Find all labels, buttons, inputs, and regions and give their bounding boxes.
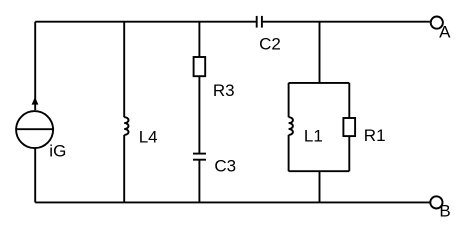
- wire parallel block top: [289, 82, 350, 84]
- inductor L4: [124, 117, 157, 146]
- wire L4 branch upper: [123, 22, 125, 118]
- wire L4 branch lower: [123, 135, 125, 203]
- wire left branch upper: [34, 22, 36, 110]
- wire R1 branch upper: [348, 83, 350, 118]
- current source iG: [16, 97, 66, 161]
- svg-text:B: B: [439, 201, 450, 220]
- svg-text:R1: R1: [364, 126, 386, 145]
- wire parallel block bottom: [289, 170, 350, 172]
- svg-text:C2: C2: [259, 35, 281, 54]
- capacitor C2: [257, 16, 281, 54]
- wire L1 branch lower: [288, 135, 290, 171]
- wire top rail left of C2: [35, 21, 257, 23]
- wire R1 branch lower: [348, 136, 350, 171]
- wire parallel block feed lower: [319, 171, 321, 202]
- svg-text:L1: L1: [304, 127, 323, 146]
- wire L1 branch upper: [288, 83, 290, 117]
- svg-text:A: A: [439, 23, 451, 42]
- inductor L1: [289, 117, 323, 145]
- wire R3 branch upper: [198, 22, 200, 57]
- wire parallel block feed upper: [319, 22, 321, 83]
- svg-text:C3: C3: [214, 156, 236, 175]
- wire C3 branch lower: [198, 160, 200, 203]
- svg-text:L4: L4: [139, 127, 158, 146]
- resistor R3: [194, 57, 235, 100]
- terminal B: [430, 196, 450, 220]
- terminal A: [431, 17, 451, 42]
- svg-text:R3: R3: [213, 81, 235, 100]
- svg-text:iG: iG: [49, 142, 66, 161]
- wire left branch lower: [34, 148, 36, 202]
- wire bottom rail: [35, 201, 430, 203]
- resistor R1: [343, 118, 385, 145]
- wire top rail right of C2: [262, 21, 430, 23]
- capacitor C3: [193, 154, 236, 176]
- wire R3 to C3: [198, 76, 200, 153]
